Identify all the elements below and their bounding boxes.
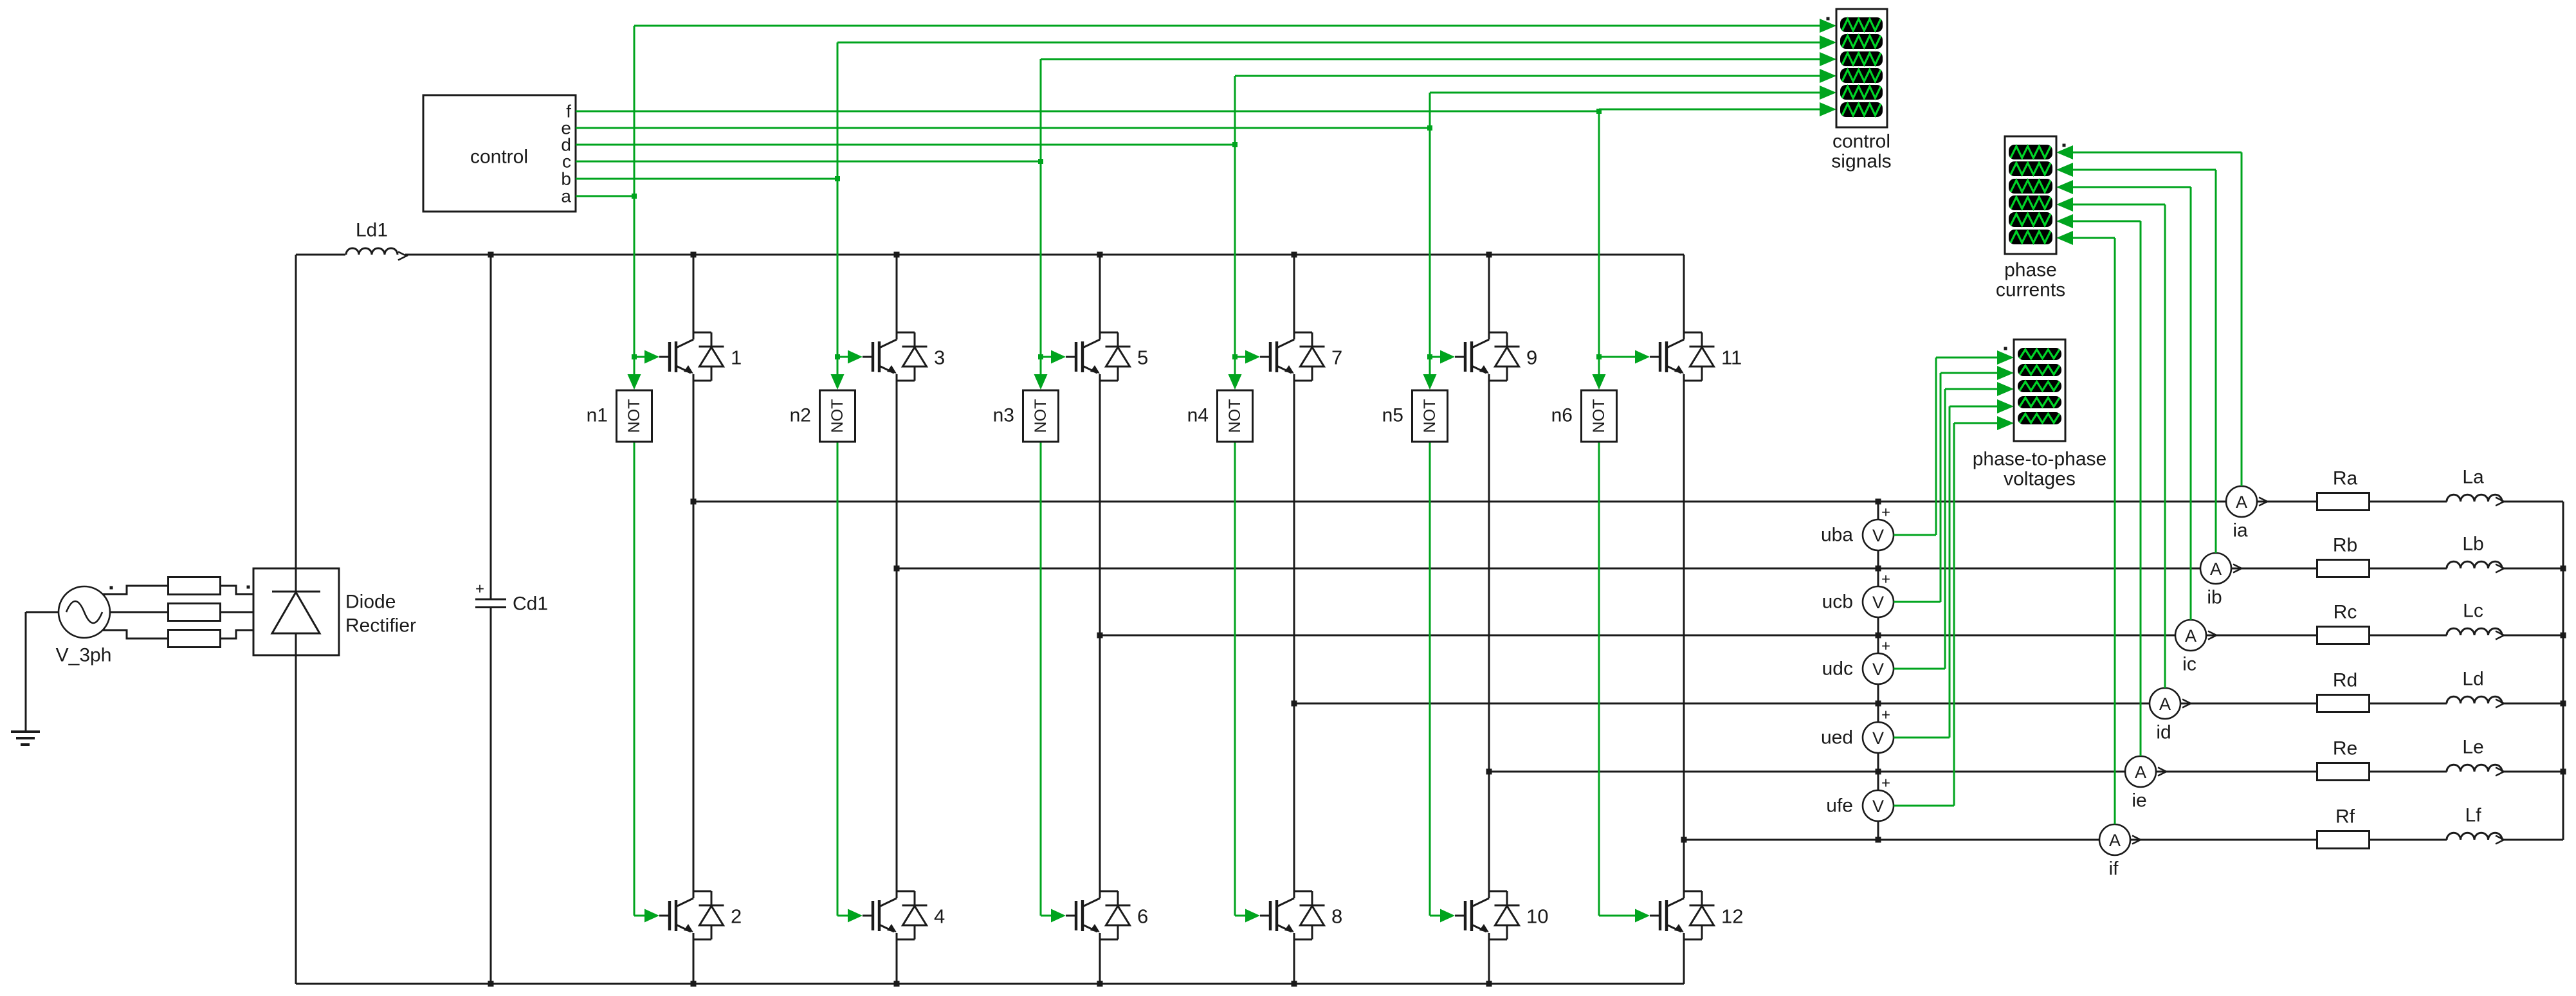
inductor Ld bbox=[2447, 669, 2504, 708]
svg-text:La: La bbox=[2462, 467, 2484, 488]
resistor Rc bbox=[2317, 602, 2370, 644]
resistor Rd bbox=[2317, 670, 2370, 712]
voltage source V_3ph bbox=[56, 586, 112, 666]
wire: ufe to scope bbox=[1894, 416, 2014, 806]
resistor Rb bbox=[2317, 535, 2370, 577]
wire: phase b output line bbox=[897, 568, 2563, 570]
wire: source phase 3 bbox=[103, 630, 169, 638]
scope: phase currents bbox=[1996, 136, 2066, 301]
svg-text:ufe: ufe bbox=[1826, 795, 1853, 817]
transistor IGBT 5 (with anti-parallel diode) bbox=[1066, 332, 1148, 381]
svg-text:11: 11 bbox=[1721, 347, 1742, 369]
wire: top DC bus bbox=[296, 254, 1684, 256]
wire: rectifier input 3 bbox=[221, 630, 253, 638]
wire: uba to scope bbox=[1894, 350, 2014, 535]
svg-text:n5: n5 bbox=[1382, 405, 1403, 426]
svg-text:phase: phase bbox=[2004, 260, 2057, 281]
svg-text:Ra: Ra bbox=[2333, 468, 2358, 489]
svg-text:12: 12 bbox=[1721, 905, 1743, 928]
wire: phase e output line bbox=[1489, 771, 2563, 773]
wire: if measurement to scope bbox=[2056, 231, 2115, 824]
transistor IGBT 7 (with anti-parallel diode) bbox=[1260, 332, 1342, 381]
svg-text:if: if bbox=[2109, 858, 2119, 880]
svg-text:Diode: Diode bbox=[345, 592, 396, 613]
transistor IGBT 1 (with anti-parallel diode) bbox=[659, 332, 742, 381]
wire: control signal c (port to scope and gates) bbox=[576, 52, 1836, 923]
wire: control signal f (port to scope and gates) bbox=[576, 102, 1836, 923]
ammeter ib bbox=[2200, 553, 2242, 608]
svg-text:Lb: Lb bbox=[2462, 534, 2483, 555]
svg-text:6: 6 bbox=[1137, 905, 1148, 928]
wire: inverter leg 6 vertical bbox=[1683, 255, 1685, 984]
transistor IGBT 12 (with anti-parallel diode) bbox=[1650, 891, 1743, 939]
transistor IGBT 9 (with anti-parallel diode) bbox=[1455, 332, 1537, 381]
svg-text:Lc: Lc bbox=[2463, 601, 2483, 622]
svg-text:NOT: NOT bbox=[1421, 399, 1439, 433]
wire: inverter leg 3 vertical bbox=[1099, 255, 1101, 984]
resistor: line impedance phase 1 bbox=[169, 577, 221, 595]
wire: source phase 2 bbox=[110, 611, 169, 613]
node: gate f junction bbox=[1596, 354, 1602, 359]
svg-text:10: 10 bbox=[1526, 905, 1548, 928]
wire: inverter leg 4 vertical bbox=[1293, 255, 1295, 984]
node: control e T-junction bbox=[1427, 125, 1432, 131]
svg-text:V_3ph: V_3ph bbox=[56, 645, 112, 666]
inductor La bbox=[2447, 467, 2504, 506]
control port e bbox=[561, 118, 571, 138]
logic NOT gate n2 bbox=[790, 390, 855, 442]
node: control f T-junction bbox=[1596, 109, 1602, 114]
wire: udc to scope bbox=[1894, 382, 2014, 669]
svg-text:Re: Re bbox=[2333, 738, 2357, 759]
inductor Lf bbox=[2447, 805, 2504, 844]
svg-text:Rd: Rd bbox=[2333, 670, 2357, 691]
svg-text:n4: n4 bbox=[1187, 405, 1209, 426]
node: gate c junction bbox=[1038, 354, 1043, 359]
capacitor Cd1 bbox=[475, 255, 548, 984]
node: control d T-junction bbox=[1232, 142, 1238, 147]
transistor IGBT 10 (with anti-parallel diode) bbox=[1455, 891, 1548, 939]
node: voltmeter chain junctions bbox=[1876, 499, 1881, 843]
control port c bbox=[562, 152, 571, 172]
svg-text:id: id bbox=[2156, 722, 2171, 743]
svg-text:NOT: NOT bbox=[828, 399, 846, 433]
resistor Rf bbox=[2317, 806, 2370, 849]
wire: inverter leg 1 vertical bbox=[693, 255, 695, 984]
wire: rectifier DC- riser bbox=[295, 655, 297, 984]
resistor Re bbox=[2317, 738, 2370, 781]
transistor IGBT 8 (with anti-parallel diode) bbox=[1260, 891, 1342, 939]
wire: ia measurement to scope bbox=[2056, 145, 2242, 486]
node: control b T-junction bbox=[835, 176, 840, 181]
control block bbox=[423, 95, 576, 212]
svg-text:n2: n2 bbox=[790, 405, 811, 426]
wire: id measurement to scope bbox=[2056, 197, 2165, 688]
wire: ie measurement to scope bbox=[2056, 214, 2141, 756]
wire: bottom DC bus bbox=[296, 983, 1684, 985]
svg-text:ib: ib bbox=[2207, 587, 2222, 608]
svg-text:Rb: Rb bbox=[2333, 535, 2357, 556]
svg-text:uba: uba bbox=[1821, 525, 1853, 546]
node: control c T-junction bbox=[1038, 159, 1043, 164]
wire: rectifier input 2 bbox=[221, 611, 253, 613]
svg-text:phase-to-phase: phase-to-phase bbox=[1973, 449, 2106, 470]
node: control a T-junction bbox=[632, 194, 637, 199]
svg-text:NOT: NOT bbox=[1590, 399, 1608, 433]
svg-text:udc: udc bbox=[1822, 658, 1853, 680]
svg-text:currents: currents bbox=[1996, 280, 2065, 301]
svg-text:Rf: Rf bbox=[2335, 806, 2355, 828]
scope: phase-to-phase voltages bbox=[1973, 340, 2106, 490]
svg-text:ia: ia bbox=[2233, 520, 2248, 541]
svg-text:n6: n6 bbox=[1551, 405, 1573, 426]
svg-text:Rectifier: Rectifier bbox=[345, 615, 416, 637]
svg-text:+: + bbox=[475, 581, 484, 598]
voltmeter ued bbox=[1821, 707, 1894, 754]
svg-text:3: 3 bbox=[934, 347, 945, 369]
logic NOT gate n5 bbox=[1382, 390, 1448, 442]
svg-text:signals: signals bbox=[1831, 151, 1891, 172]
svg-text:Ld: Ld bbox=[2462, 669, 2483, 690]
wire: ib measurement to scope bbox=[2056, 163, 2216, 553]
svg-text:control: control bbox=[470, 147, 528, 168]
wire: control signal d (port to scope and gates) bbox=[576, 69, 1836, 923]
wire: phase a output line bbox=[693, 501, 2563, 503]
resistor Ra bbox=[2317, 468, 2370, 511]
svg-text:Le: Le bbox=[2462, 737, 2483, 758]
node: top bus junctions bbox=[488, 252, 1492, 258]
control port d bbox=[561, 135, 571, 155]
svg-text:control: control bbox=[1832, 131, 1890, 152]
logic NOT gate n4 bbox=[1187, 390, 1253, 442]
wire: ucb to scope bbox=[1894, 366, 2014, 602]
node: phase tap junctions bbox=[691, 499, 1687, 843]
ammeter id bbox=[2150, 688, 2191, 743]
svg-text:5: 5 bbox=[1137, 347, 1148, 369]
svg-text:Rc: Rc bbox=[2334, 602, 2357, 623]
control port a bbox=[561, 186, 571, 206]
voltmeter udc bbox=[1822, 638, 1894, 685]
scope: control signals bbox=[1827, 9, 1892, 172]
ground bbox=[11, 612, 59, 745]
wire: phase f output line bbox=[1684, 839, 2563, 841]
svg-text:NOT: NOT bbox=[1032, 399, 1050, 433]
svg-text:9: 9 bbox=[1526, 347, 1537, 369]
transistor IGBT 6 (with anti-parallel diode) bbox=[1066, 891, 1148, 939]
logic NOT gate n1 bbox=[587, 390, 652, 442]
wire: inverter leg 2 vertical bbox=[896, 255, 898, 984]
wire: control signal e (port to scope and gates) bbox=[576, 86, 1836, 923]
wire: phase c output line bbox=[1100, 635, 2563, 637]
svg-text:Lf: Lf bbox=[2465, 805, 2481, 826]
inductor Le bbox=[2447, 737, 2504, 776]
wire: ic measurement to scope bbox=[2056, 180, 2191, 620]
inductor Ld1 bbox=[346, 220, 406, 260]
svg-text:ie: ie bbox=[2132, 790, 2146, 811]
logic NOT gate n6 bbox=[1551, 390, 1617, 442]
wire: rectifier DC+ riser bbox=[295, 255, 297, 568]
control port f bbox=[566, 102, 571, 122]
node: bottom bus junctions bbox=[488, 981, 1492, 987]
resistor: line impedance phase 2 bbox=[169, 604, 221, 621]
wire: load star-point bus bbox=[2562, 502, 2564, 840]
phase marker dot at source bbox=[110, 586, 113, 590]
transistor IGBT 3 (with anti-parallel diode) bbox=[863, 332, 945, 381]
ammeter if bbox=[2099, 824, 2141, 880]
svg-text:8: 8 bbox=[1331, 905, 1342, 928]
transistor IGBT 11 (with anti-parallel diode) bbox=[1650, 332, 1742, 381]
node: gate b junction bbox=[835, 354, 840, 359]
inductor Lc bbox=[2447, 601, 2504, 640]
wire: control signal b (port to scope and gates) bbox=[576, 35, 1836, 923]
svg-text:NOT: NOT bbox=[625, 399, 643, 433]
svg-text:ucb: ucb bbox=[1822, 592, 1853, 613]
svg-text:Cd1: Cd1 bbox=[513, 593, 548, 615]
node: gate e junction bbox=[1427, 354, 1432, 359]
node: gate d junction bbox=[1232, 354, 1238, 359]
svg-text:4: 4 bbox=[934, 905, 945, 928]
control port b bbox=[561, 169, 571, 189]
transistor IGBT 2 (with anti-parallel diode) bbox=[659, 891, 742, 939]
transistor IGBT 4 (with anti-parallel diode) bbox=[863, 891, 945, 939]
inductor Lb bbox=[2447, 534, 2504, 573]
wire: control signal a (port to scope and gates) bbox=[576, 19, 1836, 923]
resistor: line impedance phase 3 bbox=[169, 630, 221, 647]
voltmeter ucb bbox=[1822, 571, 1894, 618]
svg-text:ic: ic bbox=[2182, 654, 2197, 675]
svg-text:a: a bbox=[561, 186, 571, 206]
wire: voltmeter chain bbox=[1877, 502, 1879, 840]
svg-text:2: 2 bbox=[731, 905, 742, 928]
node: star bus junctions bbox=[2561, 566, 2566, 775]
svg-text:1: 1 bbox=[731, 347, 742, 369]
wire: ued to scope bbox=[1894, 399, 2014, 738]
svg-text:n1: n1 bbox=[587, 405, 608, 426]
voltmeter uba bbox=[1821, 504, 1894, 551]
svg-text:ued: ued bbox=[1821, 727, 1853, 748]
wire: rectifier input 1 bbox=[221, 586, 253, 594]
ammeter ie bbox=[2125, 756, 2166, 811]
logic NOT gate n3 bbox=[993, 390, 1059, 442]
svg-text:NOT: NOT bbox=[1226, 399, 1244, 433]
voltmeter ufe bbox=[1826, 775, 1894, 822]
ammeter ic bbox=[2175, 620, 2216, 675]
svg-text:Ld1: Ld1 bbox=[356, 220, 388, 241]
wire: phase d output line bbox=[1294, 703, 2563, 705]
wire: source phase 1 bbox=[103, 586, 169, 594]
svg-text:voltages: voltages bbox=[2004, 469, 2076, 490]
diode rectifier block bbox=[253, 568, 416, 655]
svg-text:7: 7 bbox=[1331, 347, 1342, 369]
svg-text:n3: n3 bbox=[993, 405, 1014, 426]
ammeter ia bbox=[2226, 486, 2267, 541]
wire: inverter leg 5 vertical bbox=[1488, 255, 1490, 984]
node: gate a junction bbox=[632, 354, 637, 359]
phase marker dot at rectifier bbox=[247, 586, 250, 589]
